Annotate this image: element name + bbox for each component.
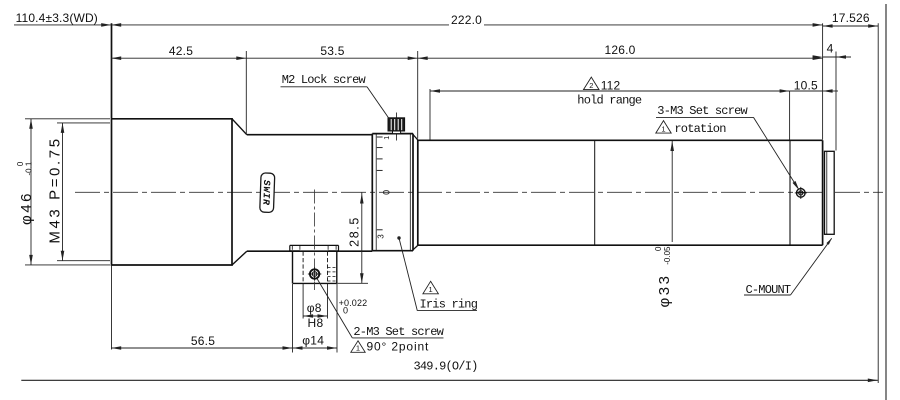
- svg-text:112: 112: [601, 78, 621, 92]
- dimension 53.5: [246, 44, 417, 139]
- svg-text:1: 1: [429, 285, 433, 294]
- svg-text:53.5: 53.5: [320, 44, 344, 58]
- svg-text:1: 1: [661, 125, 665, 134]
- svg-text:349.9(O/I): 349.9(O/I): [414, 359, 478, 373]
- dimension 28.5: [337, 192, 368, 283]
- dimension 10.5: [790, 78, 838, 93]
- svg-text:SWIR: SWIR: [260, 180, 272, 206]
- svg-text:0: 0: [382, 190, 392, 195]
- svg-text:M43 P=0.75: M43 P=0.75: [46, 136, 63, 243]
- M2 lock screw (knurled head): [388, 113, 405, 141]
- label Iris ring: [397, 236, 477, 311]
- svg-text:28.5: 28.5: [348, 216, 362, 247]
- svg-text:17.526: 17.526: [832, 11, 870, 25]
- main tube front face: [417, 140, 419, 246]
- iris ring scale label 0: [382, 190, 392, 195]
- svg-text:3: 3: [377, 234, 386, 239]
- svg-text:2: 2: [589, 81, 593, 90]
- svg-text:3-M3 Set screw: 3-M3 Set screw: [657, 104, 748, 118]
- 3-M3 set screw head: [795, 187, 807, 199]
- rear face: [822, 23, 824, 245]
- svg-text:1: 1: [384, 136, 391, 140]
- rear mount joint line: [789, 140, 791, 245]
- dimension 112 hold range: [430, 77, 790, 139]
- mounting foot body: [293, 251, 337, 283]
- optical axis centerline: [75, 191, 883, 193]
- svg-text:10.5: 10.5: [794, 78, 818, 92]
- dimension 349.9 (O/I): [21, 359, 878, 382]
- dimension 4: [813, 42, 851, 151]
- dimension phi 14: [293, 284, 338, 353]
- svg-text:126.0: 126.0: [604, 43, 635, 57]
- iris ring rear chamfer: [413, 135, 418, 250]
- iris ring scale label 3: [377, 234, 386, 239]
- main tube: [418, 140, 823, 245]
- dimension 126.0: [418, 43, 823, 60]
- mid barrel: [247, 135, 372, 252]
- label M2 Lock screw: [281, 73, 390, 118]
- label 3-M3 Set screw: [656, 104, 799, 190]
- dimension 17.526: [823, 11, 879, 383]
- svg-text:φ8: φ8: [307, 301, 322, 315]
- svg-text:-0.05: -0.05: [663, 246, 672, 265]
- foot centerline: [314, 190, 316, 291]
- svg-text:222.0: 222.0: [451, 13, 482, 27]
- dimension 222.0: [111, 13, 822, 27]
- svg-text:hold range: hold range: [577, 93, 642, 107]
- svg-text:0: 0: [343, 306, 348, 316]
- front barrel (M43 filter thread section): [112, 23, 233, 349]
- label 2-M3 Set screw: [317, 279, 445, 340]
- dimension 42.5: [111, 44, 246, 134]
- dimension 110.4 +/-3.3 (WD): [14, 11, 111, 27]
- svg-text:rotation: rotation: [674, 122, 726, 136]
- label C-MOUNT: [744, 238, 832, 296]
- iris ring scale ticks: [377, 137, 383, 230]
- dimension phi 46 -0.1: [16, 119, 110, 265]
- svg-text:Iris ring: Iris ring: [420, 298, 478, 312]
- svg-text:φ14: φ14: [302, 334, 324, 348]
- sheet border line: [885, 4, 887, 400]
- svg-text:42.5: 42.5: [169, 44, 193, 58]
- mounting foot plate: [290, 245, 339, 251]
- SWIR logo: [260, 173, 275, 213]
- svg-text:1: 1: [356, 344, 360, 353]
- note rotation: [656, 121, 726, 136]
- foot hole hidden lines (phi 8): [303, 252, 327, 284]
- dimension M43 P=0.75: [46, 123, 110, 261]
- fit class H8: [308, 316, 324, 330]
- tolerance +0.022/0: [339, 298, 368, 316]
- svg-text:2-M3 Set screw: 2-M3 Set screw: [353, 325, 444, 339]
- dimension 56.5: [111, 334, 292, 350]
- svg-text:M2 Lock screw: M2 Lock screw: [282, 73, 367, 87]
- iris ring scale label 1: [384, 136, 391, 140]
- dimension phi 33 -0.05: [654, 141, 674, 308]
- front barrel chamfer edges: [232, 119, 247, 265]
- svg-text:56.5: 56.5: [191, 334, 215, 348]
- foot side screw hidden lines: [328, 267, 337, 281]
- svg-text:90° 2point: 90° 2point: [367, 340, 430, 354]
- C-mount thread ring: [825, 151, 835, 234]
- note 90 degree 2point: [351, 340, 429, 354]
- tube joint line: [594, 140, 596, 245]
- dimension phi 8: [303, 284, 327, 319]
- svg-text:φ33: φ33: [656, 274, 673, 308]
- svg-text:φ46: φ46: [18, 191, 35, 225]
- 2-M3 set screw head (in foot): [308, 267, 321, 280]
- iris ring body: [372, 134, 413, 251]
- svg-text:-0.1: -0.1: [25, 161, 34, 175]
- svg-text:H8: H8: [308, 316, 324, 330]
- svg-text:110.4±3.3(WD): 110.4±3.3(WD): [16, 11, 98, 25]
